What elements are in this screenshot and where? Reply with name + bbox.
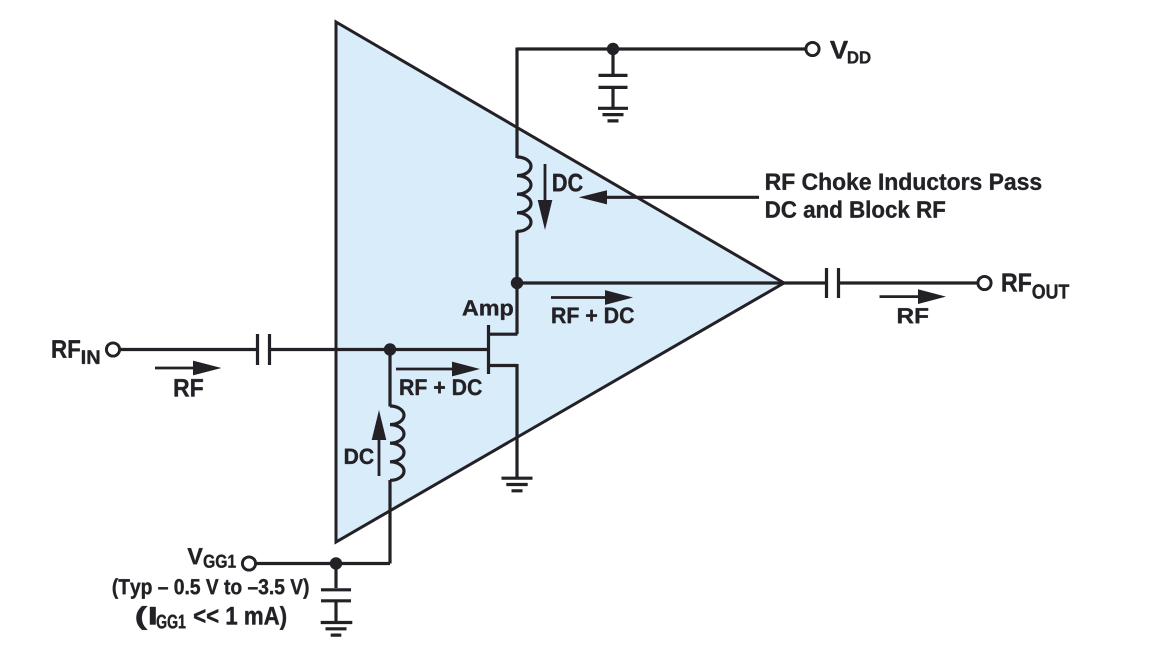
note RF choke callout line 1 [766, 173, 1041, 190]
arrow DC up (gate choke) [378, 439, 381, 476]
label Amp [463, 300, 513, 320]
wire note pointer [605, 196, 759, 199]
ground (FET source) [502, 478, 533, 491]
arrow note pointer head [579, 190, 607, 204]
arrow RF input flow [155, 367, 195, 370]
value label VGG1 typ range [113, 578, 309, 598]
wire bias choke down to VGG rail [256, 480, 390, 564]
wire VGG node to bypass cap [334, 564, 337, 589]
terminal RFIN [106, 343, 119, 356]
terminal RFOUT [978, 276, 991, 289]
label RF input flow [175, 379, 203, 396]
wire apex to output cap [782, 281, 825, 284]
capacitor C3 output DC block [827, 268, 839, 298]
transistor Q1 source lead [489, 364, 518, 477]
label RF+DC gate [400, 379, 481, 395]
label RFIN 'RF' [53, 340, 81, 357]
transistor Q1 channel bar [487, 325, 490, 374]
wire gate node to FET gate [390, 348, 488, 351]
arrow RF output flow [880, 295, 922, 298]
label DC gate choke [345, 449, 374, 465]
wire VDD rail horizontal [517, 47, 805, 50]
wire drain supply vertical [515, 48, 518, 159]
wire gate node down to bias choke [388, 350, 391, 407]
node VDD decap junction [607, 43, 619, 55]
node drain junction [511, 277, 523, 289]
wire decap to ground [611, 89, 614, 107]
wire VDD decoupling drop [611, 49, 614, 74]
label RFIN subscript 'IN' [82, 350, 99, 364]
wire bypass cap to ground [334, 602, 337, 621]
label RF+DC drain [552, 307, 634, 323]
wire RFIN to input cap [120, 348, 256, 351]
capacitor C4 VDD decoupling [599, 75, 628, 87]
inductor L2 RF choke (gate bias) [390, 406, 404, 480]
arrow DC down (drain choke) [544, 164, 547, 202]
arrow RF+DC gate flow [396, 368, 455, 371]
capacitor C1 input DC block [258, 334, 270, 365]
wire drain node to apex [517, 281, 784, 284]
transistor Q1 drain lead [489, 281, 518, 334]
terminal VDD [806, 42, 819, 55]
inductor L1 RF choke (drain) [517, 157, 531, 231]
wire input cap to gate node [271, 348, 390, 351]
label RFOUT 'RF' [1003, 274, 1032, 292]
ground (VDD decap) [598, 108, 628, 121]
node VGG junction [330, 557, 342, 569]
value label IGG1 '(I' [136, 606, 155, 630]
ground (gate bypass) [321, 623, 353, 636]
label RF output flow [898, 308, 928, 323]
value label IGG1 '<< 1 mA)' [194, 606, 286, 630]
label DC drain choke [553, 174, 582, 192]
label VGG1 'V' [188, 548, 203, 564]
terminal VGG1 [242, 557, 255, 570]
capacitor C2 gate bypass [321, 590, 351, 601]
note RF choke callout line 2 [766, 201, 945, 218]
label VGG1 subscript 'GG1' [204, 555, 236, 568]
node gate junction [384, 343, 396, 355]
label VDD subscript 'DD' [848, 51, 870, 63]
wire choke to drain node [515, 231, 518, 284]
op-amp U1 amplifier triangle [336, 22, 784, 542]
value label IGG1 subscript 'GG1' [157, 615, 186, 629]
label VDD 'V' [830, 41, 848, 59]
arrow RF+DC drain flow [551, 296, 608, 299]
label RFOUT subscript 'OUT' [1033, 284, 1070, 298]
wire output cap to RFOUT terminal [840, 281, 977, 284]
